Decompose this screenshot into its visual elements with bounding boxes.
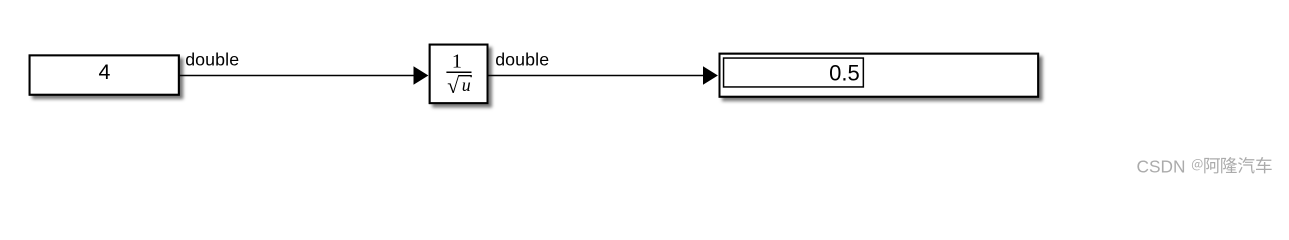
watermark glyph 车 (1256, 157, 1272, 173)
sqrt block U1 (1/sqrt(u)) (430, 45, 488, 104)
wire from constant to sqrt block (180, 75, 414, 77)
svg-text:4: 4 (99, 60, 111, 84)
display block D1 (outer frame) (720, 54, 1039, 97)
svg-text:u: u (462, 75, 471, 95)
radical sign of sqrt(u) (448, 76, 459, 93)
svg-text:0.5: 0.5 (829, 60, 860, 85)
watermark glyph 隆 (1221, 157, 1237, 173)
constant block C1 (value 4) (30, 55, 179, 94)
svg-text:1: 1 (452, 50, 462, 72)
watermark glyph 阿 (1204, 158, 1220, 174)
watermark glyph @ (1192, 159, 1203, 170)
arrowhead into sqrt block (414, 66, 429, 84)
watermark glyph 汽 (1238, 157, 1255, 173)
svg-text:double: double (185, 49, 239, 69)
radical overline of sqrt(u) (458, 75, 472, 77)
svg-text:CSDN: CSDN (1137, 156, 1186, 176)
fraction bar (446, 71, 471, 73)
display value field (inner rectangle) (724, 58, 864, 87)
arrowhead into display block (703, 66, 718, 84)
svg-text:double: double (495, 49, 549, 69)
wire from sqrt block to display block (488, 75, 703, 77)
